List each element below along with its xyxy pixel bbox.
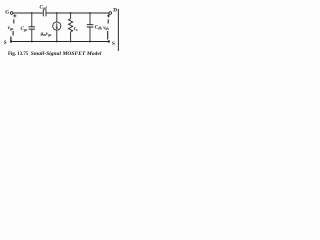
wire vds upper dash: [107, 19, 109, 23]
svg-text:G: G: [5, 11, 9, 16]
wire vgs upper dash: [13, 19, 15, 23]
node D terminal: [109, 12, 112, 15]
svg-text:Small-Signal MOSFET Model: Small-Signal MOSFET Model: [31, 51, 102, 57]
node S terminal right: [108, 40, 110, 42]
wire vds lower dash: [107, 31, 109, 40]
vds polarity +: [107, 15, 110, 17]
node S terminal left: [10, 40, 12, 42]
capacitor Cdb: [87, 12, 102, 42]
svg-text:Cdb: Cdb: [95, 26, 102, 31]
capacitor Cgs: [21, 12, 36, 42]
wire bottom rail: [12, 41, 109, 43]
wire vgs lower dash: [12, 31, 14, 36]
svg-text:S: S: [112, 42, 115, 47]
svg-text:S: S: [4, 41, 7, 46]
node G terminal: [10, 12, 13, 15]
svg-text:D: D: [113, 7, 117, 13]
svg-text:gmvgs: gmvgs: [40, 32, 52, 37]
resistor ro: [69, 12, 78, 42]
capacitor Cgd: [40, 5, 47, 17]
page edge line: [117, 9, 119, 51]
svg-text:ro: ro: [74, 27, 78, 32]
wire top rail left: [13, 12, 43, 14]
svg-text:vds: vds: [103, 25, 109, 31]
svg-text:Cgd: Cgd: [40, 5, 47, 11]
svg-text:Fig. 13.75: Fig. 13.75: [8, 52, 29, 57]
wire top rail right: [46, 12, 109, 14]
vgs polarity +: [13, 15, 16, 17]
vgs polarity minus: [10, 36, 12, 40]
current source gm vgs: [40, 12, 61, 42]
svg-text:vgs: vgs: [8, 25, 14, 31]
svg-text:Cgs: Cgs: [21, 27, 28, 32]
